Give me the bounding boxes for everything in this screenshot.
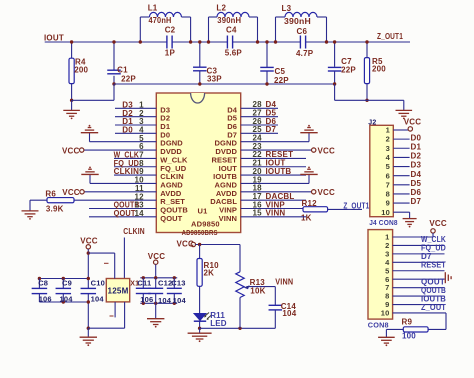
svg-text:22P: 22P bbox=[121, 75, 136, 84]
svg-text:L2: L2 bbox=[216, 4, 226, 13]
svg-text:Z_OUT1: Z_OUT1 bbox=[377, 32, 403, 41]
svg-text:106: 106 bbox=[39, 294, 52, 303]
svg-text:D3: D3 bbox=[411, 161, 422, 170]
svg-text:D7: D7 bbox=[411, 197, 422, 206]
svg-text:14: 14 bbox=[134, 209, 144, 218]
svg-text:D7: D7 bbox=[266, 125, 277, 134]
svg-text:D1: D1 bbox=[411, 142, 422, 151]
svg-text:125M: 125M bbox=[108, 286, 129, 295]
svg-text:C7: C7 bbox=[341, 57, 352, 66]
svg-text:VCC: VCC bbox=[148, 252, 166, 261]
svg-text:CLKIN: CLKIN bbox=[123, 227, 145, 236]
svg-text:IOUT: IOUT bbox=[44, 34, 64, 43]
svg-text:5.6P: 5.6P bbox=[225, 49, 243, 58]
svg-text:D0: D0 bbox=[122, 125, 133, 134]
svg-text:VCC: VCC bbox=[429, 219, 447, 228]
svg-text:10: 10 bbox=[381, 208, 390, 217]
svg-text:AD9850: AD9850 bbox=[191, 219, 220, 228]
svg-text:R12: R12 bbox=[302, 199, 318, 208]
svg-text:1: 1 bbox=[386, 126, 390, 135]
svg-text:D2: D2 bbox=[411, 152, 422, 161]
svg-text:390nH: 390nH bbox=[217, 16, 241, 25]
svg-text:RESET: RESET bbox=[421, 261, 446, 270]
svg-text:R9: R9 bbox=[402, 318, 413, 327]
svg-text:D4: D4 bbox=[411, 170, 422, 179]
svg-text:6: 6 bbox=[386, 171, 390, 180]
svg-text:LED: LED bbox=[210, 319, 227, 328]
svg-text:VINN: VINN bbox=[219, 214, 237, 223]
svg-text:VCC: VCC bbox=[62, 146, 80, 155]
svg-text:VCC: VCC bbox=[62, 188, 80, 197]
svg-text:C6: C6 bbox=[297, 27, 308, 36]
svg-text:Z_OUT: Z_OUT bbox=[421, 303, 446, 312]
svg-text:C12: C12 bbox=[158, 279, 172, 288]
svg-text:470nH: 470nH bbox=[149, 16, 172, 25]
svg-text:D6: D6 bbox=[411, 188, 422, 197]
svg-text:C10: C10 bbox=[91, 279, 105, 288]
svg-text:104: 104 bbox=[91, 294, 105, 303]
svg-text:104: 104 bbox=[173, 296, 187, 305]
svg-text:QOUT: QOUT bbox=[114, 209, 136, 218]
svg-text:D5: D5 bbox=[411, 179, 422, 188]
svg-text:C8: C8 bbox=[38, 279, 48, 288]
svg-text:200: 200 bbox=[74, 66, 88, 75]
svg-text:C5: C5 bbox=[275, 67, 286, 76]
svg-text:104: 104 bbox=[282, 309, 296, 318]
svg-text:100: 100 bbox=[402, 332, 416, 341]
svg-text:2K: 2K bbox=[204, 268, 215, 277]
svg-text:U1: U1 bbox=[198, 206, 208, 215]
svg-text:C13: C13 bbox=[171, 279, 185, 288]
svg-text:Z_OUT1: Z_OUT1 bbox=[343, 201, 369, 210]
svg-text:104: 104 bbox=[60, 294, 74, 303]
svg-text:15: 15 bbox=[253, 209, 263, 218]
svg-text:IOUTB: IOUTB bbox=[266, 167, 292, 176]
svg-text:1K: 1K bbox=[301, 214, 312, 223]
svg-text:10K: 10K bbox=[250, 287, 265, 296]
svg-text:VCC: VCC bbox=[318, 146, 336, 155]
svg-text:VINN: VINN bbox=[275, 277, 293, 286]
svg-text:C11: C11 bbox=[137, 279, 151, 288]
svg-text:33P: 33P bbox=[207, 75, 222, 84]
svg-text:2: 2 bbox=[386, 135, 390, 144]
svg-text:4.7P: 4.7P bbox=[296, 49, 314, 58]
svg-text:C1: C1 bbox=[117, 66, 128, 75]
svg-text:QOUT: QOUT bbox=[160, 214, 182, 223]
svg-text:22P: 22P bbox=[274, 76, 289, 85]
svg-text:7: 7 bbox=[386, 180, 390, 189]
svg-text:L1: L1 bbox=[148, 4, 158, 13]
svg-text:22P: 22P bbox=[341, 66, 356, 75]
svg-text:VCC: VCC bbox=[80, 236, 98, 245]
svg-text:4: 4 bbox=[386, 153, 391, 162]
svg-text:VINN: VINN bbox=[266, 209, 286, 218]
svg-text:D0: D0 bbox=[411, 133, 422, 142]
svg-text:AD9850BRS: AD9850BRS bbox=[182, 228, 218, 237]
svg-text:390nH: 390nH bbox=[284, 17, 311, 26]
svg-text:3.9K: 3.9K bbox=[46, 204, 64, 213]
svg-text:8: 8 bbox=[386, 190, 390, 199]
svg-text:5: 5 bbox=[386, 162, 390, 171]
svg-text:VCC: VCC bbox=[404, 118, 422, 127]
svg-text:9: 9 bbox=[386, 199, 390, 208]
svg-text:C9: C9 bbox=[62, 279, 72, 288]
svg-text:VCC: VCC bbox=[318, 188, 336, 197]
svg-text:CON8: CON8 bbox=[368, 321, 389, 330]
svg-text:C4: C4 bbox=[226, 26, 237, 35]
svg-text:200: 200 bbox=[372, 64, 386, 73]
svg-text:L3: L3 bbox=[282, 4, 292, 13]
svg-text:3: 3 bbox=[386, 144, 390, 153]
svg-text:104: 104 bbox=[158, 296, 172, 305]
svg-text:J4 CON8: J4 CON8 bbox=[369, 218, 398, 227]
svg-text:1P: 1P bbox=[165, 49, 176, 58]
svg-text:106: 106 bbox=[140, 295, 153, 304]
svg-text:R6: R6 bbox=[45, 190, 56, 199]
svg-text:C2: C2 bbox=[165, 26, 176, 35]
svg-text:10: 10 bbox=[381, 309, 390, 318]
